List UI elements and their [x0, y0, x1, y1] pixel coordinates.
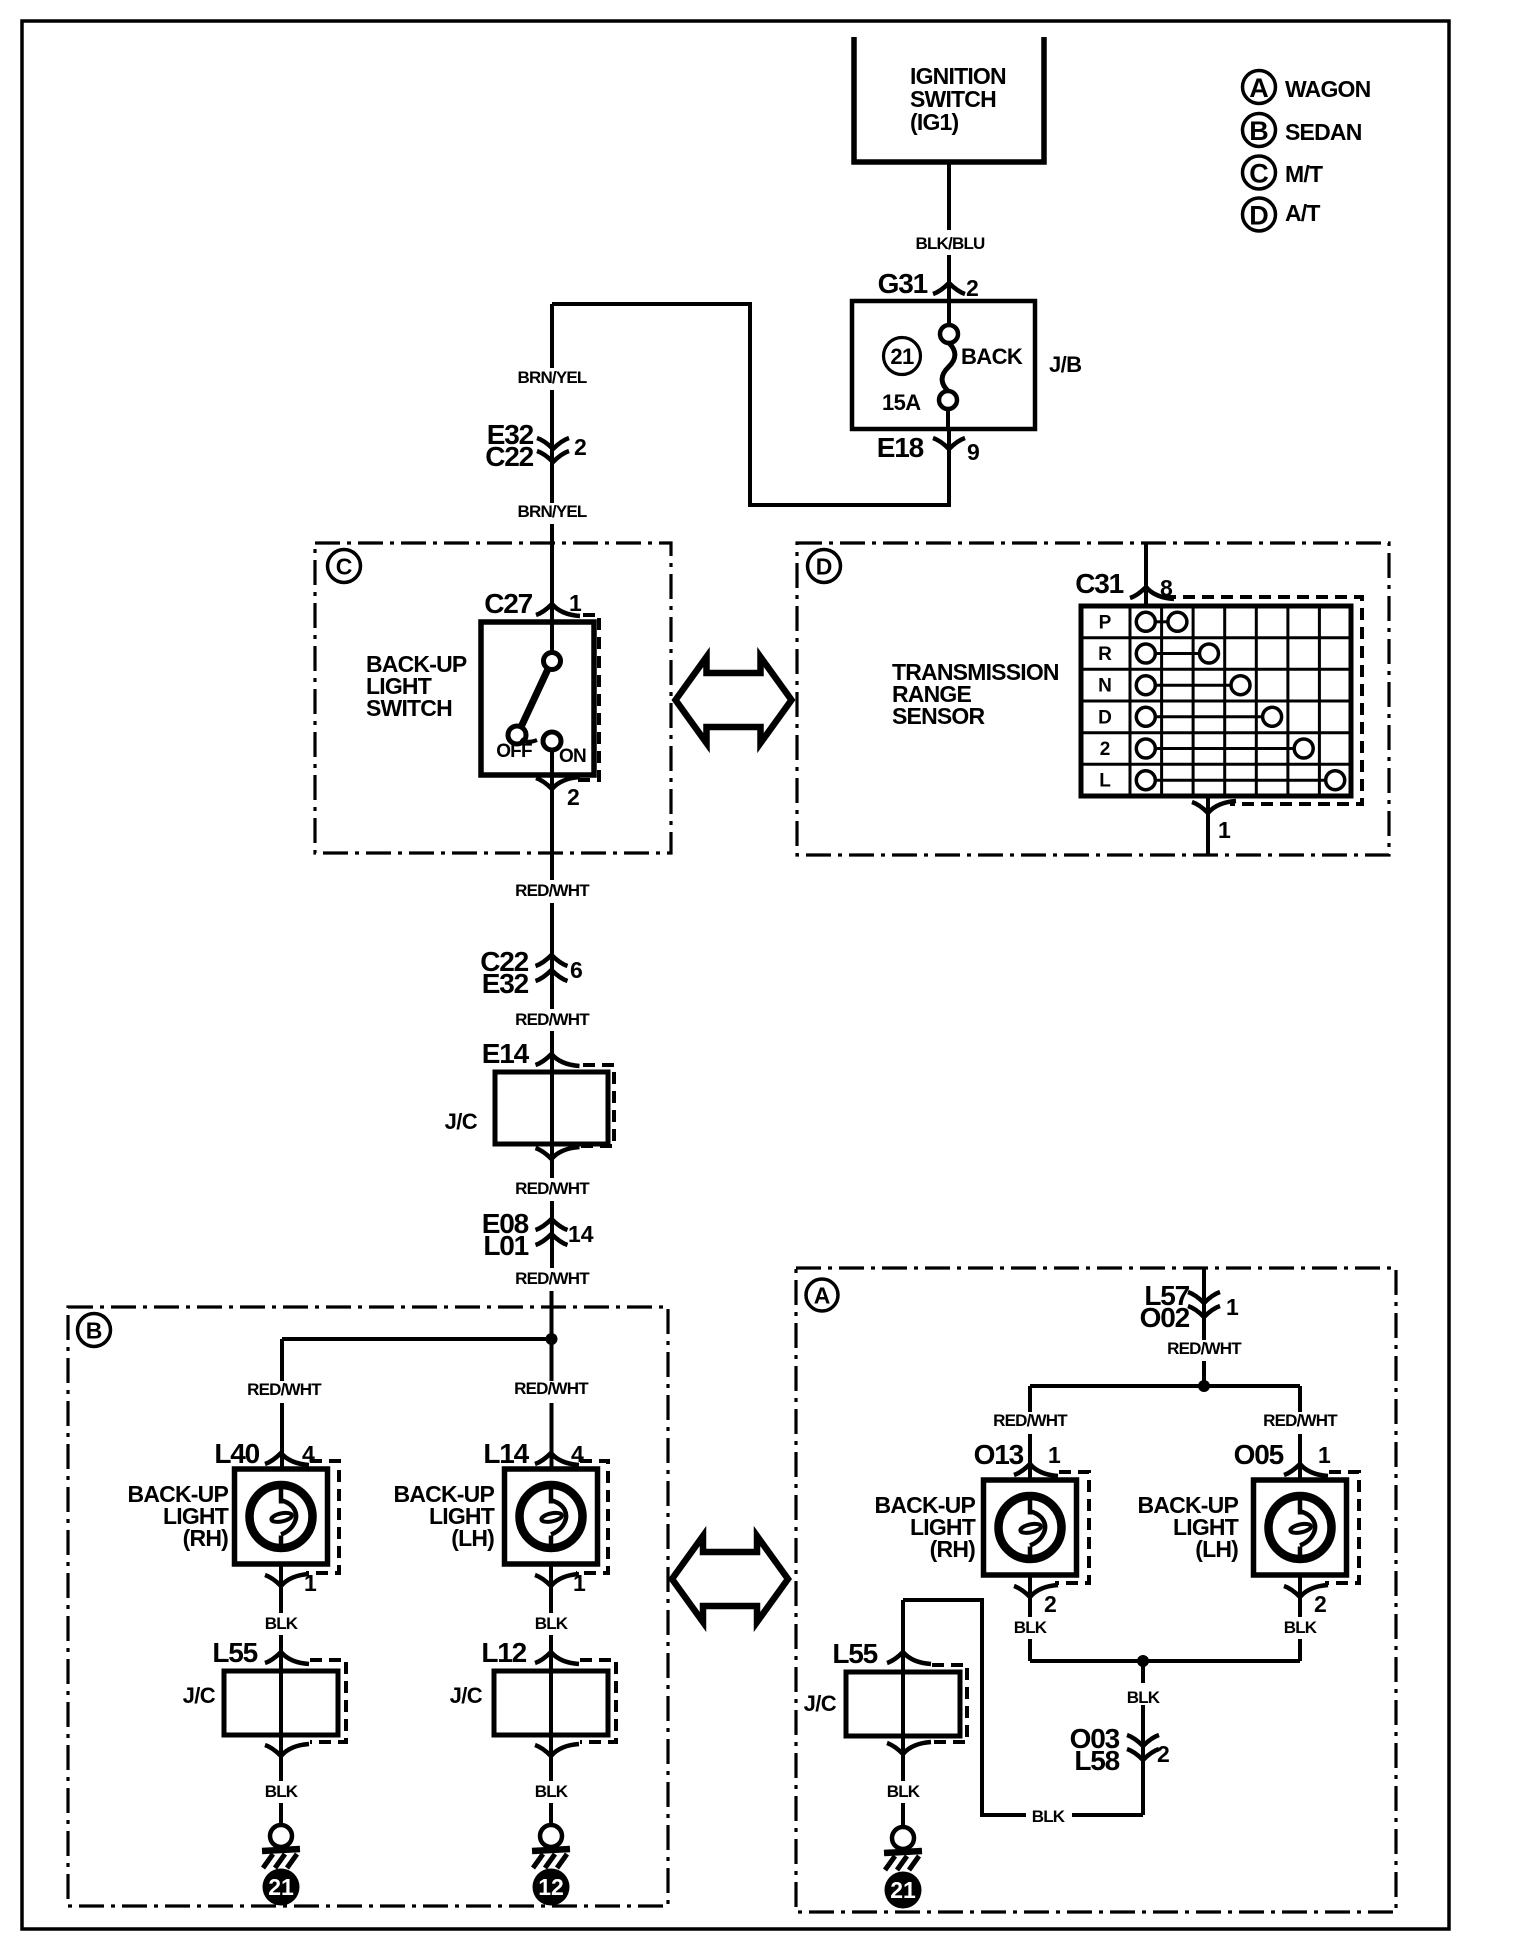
svg-text:L12: L12: [481, 1637, 526, 1668]
svg-text:BLK: BLK: [265, 1614, 299, 1633]
wire switch to E14 (RED/WHT): [515, 750, 590, 1072]
connector L40 pin 4: [214, 1438, 315, 1469]
svg-text:A/T: A/T: [1285, 200, 1320, 226]
connector C22/E32 pin 6: [480, 946, 583, 999]
back-up light LH (L14): [505, 1461, 609, 1573]
svg-text:BRN/YEL: BRN/YEL: [517, 368, 586, 387]
svg-text:E32: E32: [482, 968, 529, 999]
svg-text:P: P: [1099, 612, 1112, 633]
connector E08/L01 pin 14: [482, 1208, 594, 1261]
svg-text:SEDAN: SEDAN: [1285, 119, 1362, 145]
ground number 21 (sedan RH): [263, 1869, 300, 1906]
connector E18 pin 9: [877, 432, 980, 465]
wire to L14 (RED/WHT): [514, 1339, 589, 1469]
grid contact row P: [1136, 612, 1187, 631]
connector O05 pin 1: [1234, 1439, 1331, 1476]
svg-text:R: R: [1098, 644, 1112, 665]
ignition switch IG1: [854, 37, 1044, 162]
svg-text:BLK: BLK: [1284, 1618, 1318, 1637]
svg-text:BLK: BLK: [887, 1782, 921, 1801]
ground number 12 (sedan LH): [533, 1869, 570, 1906]
svg-text:C22: C22: [485, 441, 533, 472]
svg-text:L40: L40: [214, 1438, 259, 1469]
wire ignition switch to G31 (BLK/BLU): [916, 162, 986, 301]
svg-text:1: 1: [1318, 1442, 1331, 1468]
connector L14 pin 4: [483, 1438, 584, 1469]
svg-text:RED/WHT: RED/WHT: [1263, 1411, 1338, 1430]
svg-text:J/C: J/C: [445, 1109, 478, 1134]
svg-text:D: D: [1098, 707, 1112, 728]
svg-text:J/C: J/C: [450, 1683, 483, 1708]
svg-text:E14: E14: [482, 1038, 530, 1069]
svg-text:21: 21: [890, 344, 914, 369]
legend item A WAGON: [1243, 71, 1371, 104]
back-up light switch name: [366, 651, 467, 721]
svg-text:1: 1: [569, 590, 582, 616]
junction connector L55 J/C (wagon): [804, 1665, 967, 1754]
svg-text:E18: E18: [877, 432, 924, 463]
ground number 21 (wagon): [885, 1872, 922, 1909]
svg-text:OFF: OFF: [496, 741, 532, 762]
svg-text:L55: L55: [832, 1638, 877, 1669]
wire BLK route to L55 (wagon): [903, 1600, 1143, 1826]
svg-text:9: 9: [967, 439, 980, 465]
back-up light LH name (sedan): [394, 1481, 495, 1551]
arrow between B and A: [672, 1536, 788, 1622]
svg-text:G31: G31: [878, 268, 928, 299]
svg-text:D: D: [1249, 201, 1269, 231]
wire BRN/YEL vertical: [517, 304, 586, 652]
connector O03/L58 pin 2: [1070, 1723, 1170, 1776]
connector O05 pin 2: [1284, 1585, 1328, 1617]
svg-text:RED/WHT: RED/WHT: [993, 1411, 1068, 1430]
back-up light RH (L40): [235, 1461, 340, 1573]
ground wagon: [884, 1827, 922, 1870]
svg-text:2: 2: [567, 784, 580, 810]
back-up light switch C27: [481, 615, 599, 780]
svg-text:6: 6: [570, 957, 583, 983]
connector O13 pin 2: [1014, 1585, 1058, 1617]
wire L14 to L12 (BLK): [535, 1564, 569, 1671]
connector E32/C22 pin 2: [485, 419, 587, 472]
grid output pin 1: [1192, 796, 1236, 855]
svg-text:2: 2: [1100, 739, 1111, 760]
back-up light RH name (sedan): [128, 1481, 229, 1551]
junction block J/B: [852, 301, 1081, 429]
svg-text:L14: L14: [483, 1438, 529, 1469]
connector G31 pin 2: [878, 268, 979, 301]
connector O13 pin 1: [974, 1439, 1061, 1476]
svg-text:2: 2: [1044, 1591, 1057, 1617]
svg-text:B: B: [1249, 116, 1269, 146]
junction connector E14 J/C: [445, 1065, 614, 1146]
connector E14: [482, 1038, 580, 1069]
svg-text:21: 21: [268, 1874, 294, 1900]
svg-text:A: A: [1249, 73, 1269, 103]
svg-text:L58: L58: [1074, 1745, 1119, 1776]
svg-text:RED/WHT: RED/WHT: [515, 1269, 590, 1288]
connector L12: [481, 1637, 579, 1668]
svg-text:BLK: BLK: [265, 1782, 299, 1801]
svg-text:RED/WHT: RED/WHT: [514, 1379, 589, 1398]
wire O05 to node (BLK): [1284, 1575, 1318, 1661]
svg-text:BLK: BLK: [1014, 1618, 1048, 1637]
svg-text:RED/WHT: RED/WHT: [1167, 1339, 1242, 1358]
grid contact row D: [1136, 707, 1281, 726]
ground sedan LH: [532, 1825, 570, 1868]
svg-text:21: 21: [890, 1877, 916, 1903]
back-up light RH name (wagon): [875, 1492, 976, 1562]
svg-text:4: 4: [302, 1441, 315, 1467]
svg-text:RED/WHT: RED/WHT: [515, 1010, 590, 1029]
svg-text:BLK: BLK: [1032, 1807, 1066, 1826]
svg-text:2: 2: [574, 434, 587, 460]
svg-text:2: 2: [966, 275, 979, 301]
svg-text:L55: L55: [212, 1637, 257, 1668]
connector C27 pin 2: [536, 777, 580, 810]
ground sedan RH: [262, 1825, 300, 1868]
wire O13 to node (BLK): [1014, 1575, 1048, 1661]
wire L55 to ground (BLK): [265, 1735, 299, 1826]
wire to L40 (RED/WHT): [247, 1339, 322, 1469]
back-up light RH (O13): [984, 1472, 1090, 1583]
svg-text:D: D: [816, 554, 833, 580]
connector L40 pin 1: [265, 1570, 317, 1596]
svg-text:15A: 15A: [882, 390, 921, 415]
svg-text:SENSOR: SENSOR: [892, 703, 986, 729]
svg-text:1: 1: [1226, 1294, 1239, 1320]
svg-text:B: B: [86, 1318, 103, 1344]
node junction RED/WHT in box A: [1030, 1380, 1300, 1392]
back-up light LH (O05): [1254, 1472, 1360, 1583]
svg-text:C: C: [336, 554, 353, 580]
svg-text:1: 1: [1218, 817, 1231, 843]
svg-text:2: 2: [1314, 1591, 1327, 1617]
connector L14 pin 1: [535, 1570, 586, 1596]
svg-text:RED/WHT: RED/WHT: [515, 881, 590, 900]
svg-text:SWITCH: SWITCH: [366, 695, 452, 721]
svg-text:BACK: BACK: [961, 344, 1023, 369]
svg-text:(RH): (RH): [183, 1525, 228, 1551]
svg-text:J/B: J/B: [1049, 352, 1081, 377]
svg-text:1: 1: [304, 1570, 317, 1596]
svg-text:C27: C27: [484, 588, 532, 619]
transmission range sensor name: [892, 659, 1059, 729]
grid contact row L: [1136, 771, 1344, 790]
node junction BLK in box A: [1030, 1655, 1300, 1667]
svg-text:2: 2: [1157, 1741, 1170, 1767]
svg-text:4: 4: [571, 1441, 584, 1467]
grid contact row N: [1136, 676, 1250, 695]
arrow between C and D: [676, 657, 792, 743]
svg-text:O05: O05: [1234, 1439, 1284, 1470]
svg-text:(LH): (LH): [1195, 1536, 1238, 1562]
svg-text:O02: O02: [1140, 1302, 1190, 1333]
svg-text:(RH): (RH): [930, 1536, 975, 1562]
fuse BACK 15A: [882, 301, 1023, 429]
svg-text:J/C: J/C: [804, 1691, 837, 1716]
legend item D A/T: [1243, 198, 1321, 231]
svg-text:(LH): (LH): [451, 1525, 494, 1551]
svg-text:BLK/BLU: BLK/BLU: [916, 234, 986, 253]
wire to O05 (RED/WHT): [1263, 1386, 1338, 1480]
box B (sedan circuit): [68, 1307, 668, 1906]
svg-text:J/C: J/C: [183, 1683, 216, 1708]
connector L55: [212, 1637, 309, 1668]
transmission range sensor grid: [1081, 597, 1362, 804]
connector C31 pin 8: [1075, 543, 1174, 606]
svg-text:1: 1: [1048, 1442, 1061, 1468]
svg-text:BLK: BLK: [535, 1782, 569, 1801]
box A (wagon circuit): [796, 1268, 1396, 1912]
wire to O13 (RED/WHT): [993, 1386, 1068, 1480]
svg-text:O13: O13: [974, 1439, 1024, 1470]
svg-text:RED/WHT: RED/WHT: [247, 1380, 322, 1399]
back-up light LH name (wagon): [1138, 1492, 1239, 1562]
wire L12 to ground (BLK): [535, 1735, 569, 1826]
box D (A/T circuit): [797, 543, 1389, 855]
junction connector L55 J/C: [183, 1660, 346, 1756]
grid contact row 2: [1136, 739, 1313, 758]
grid contact row R: [1136, 644, 1218, 663]
svg-text:BLK: BLK: [1127, 1688, 1161, 1707]
svg-text:WAGON: WAGON: [1285, 76, 1371, 102]
wire node to O03/L58 (BLK): [1127, 1661, 1161, 1815]
wire E18 to BRN/YEL branch: [552, 304, 949, 505]
svg-text:1: 1: [573, 1570, 586, 1596]
svg-text:N: N: [1098, 676, 1112, 697]
wire E14 to E08/L01 (RED/WHT): [515, 1144, 590, 1339]
connector L57/O02 pin 1: [1140, 1268, 1243, 1386]
svg-text:C31: C31: [1075, 568, 1123, 599]
legend item B SEDAN: [1243, 114, 1362, 147]
svg-text:L01: L01: [483, 1230, 528, 1261]
node junction RED/WHT in box B: [282, 1333, 558, 1345]
svg-text:RED/WHT: RED/WHT: [515, 1179, 590, 1198]
wire L55 to ground (BLK, wagon): [887, 1736, 921, 1828]
svg-text:ON: ON: [559, 746, 586, 767]
svg-text:14: 14: [568, 1221, 594, 1247]
svg-text:M/T: M/T: [1285, 161, 1323, 187]
box C (M/T circuit): [315, 543, 671, 853]
svg-text:12: 12: [538, 1874, 564, 1900]
connector below E14 J/C: [536, 1147, 580, 1159]
legend item C M/T: [1243, 156, 1323, 189]
svg-text:BLK: BLK: [535, 1614, 569, 1633]
wire L40 to L55 (BLK): [265, 1564, 299, 1671]
svg-text:(IG1): (IG1): [910, 109, 959, 135]
svg-text:C: C: [1249, 159, 1269, 189]
svg-text:L: L: [1099, 771, 1111, 792]
connector L55 (wagon): [832, 1600, 931, 1672]
junction connector L12 J/C: [450, 1660, 616, 1756]
svg-text:BRN/YEL: BRN/YEL: [517, 502, 586, 521]
svg-text:A: A: [814, 1283, 831, 1309]
connector C27 pin 1: [484, 588, 582, 619]
circled 21 fuse number: [884, 338, 921, 375]
